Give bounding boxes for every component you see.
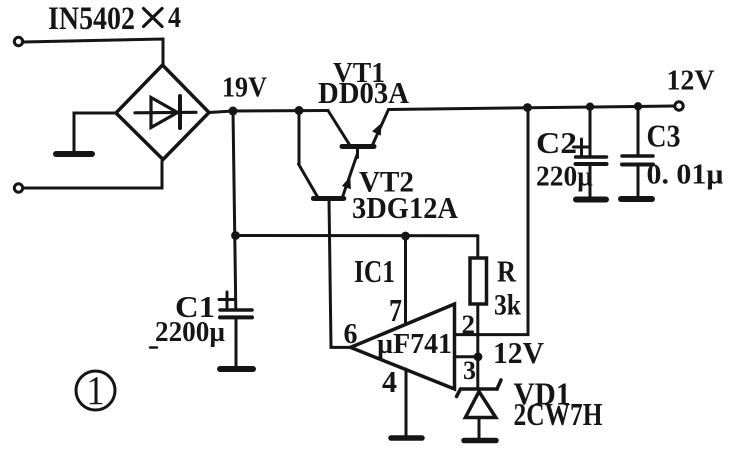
wire top input to bridge (23, 39, 163, 64)
wire bottom input to bridge (23, 161, 162, 188)
wire 19V rail left (209, 111, 328, 113)
svg-text:220µ: 220µ (536, 161, 593, 193)
svg-text:3: 3 (463, 356, 476, 385)
node junction rail-C1 (229, 107, 238, 116)
capacitor C2 plates (576, 157, 607, 164)
svg-text:µF741: µF741 (377, 329, 452, 360)
stray mark (150, 346, 157, 349)
zener VD1 anode triangle (465, 392, 495, 418)
transistor VT1 emitter (372, 110, 389, 147)
svg-text:12V: 12V (667, 66, 715, 97)
diode inside bridge (135, 96, 196, 128)
svg-text:7: 7 (389, 292, 402, 328)
ground under C1 (220, 366, 253, 372)
wire VT2 base down to op-amp output (329, 199, 351, 348)
node junction pin7 (401, 232, 410, 241)
svg-text:C2: C2 (536, 125, 577, 160)
transistor VT2 emitter (342, 155, 357, 199)
wire C3 to ground (637, 165, 640, 196)
ground under C2 (576, 197, 606, 203)
transistor VT1 collector (328, 111, 350, 146)
svg-text:2CW7H: 2CW7H (514, 396, 603, 432)
transistor VT2 base bar (313, 196, 343, 201)
svg-text:1: 1 (87, 367, 105, 413)
wire bridge left vertex to ground (74, 113, 116, 151)
transistor VT1 base stub (356, 147, 359, 158)
bridge rectifier diamond (116, 65, 209, 160)
svg-text:R: R (497, 254, 517, 289)
capacitor C1 plus sign (219, 292, 235, 308)
svg-text:0. 01µ: 0. 01µ (647, 160, 724, 191)
op-amp pin 2 wire to feedback (456, 108, 528, 335)
node junction rail-VT2 collector (295, 106, 304, 115)
svg-text:DD03A: DD03A (318, 75, 410, 110)
op-amp pin 4 wire (405, 369, 408, 436)
transistor VT2 collector (299, 164, 318, 197)
wire 19V rail right to output (389, 106, 675, 110)
node junction pin3-zener (474, 352, 483, 361)
wire VT2 collector drop (298, 111, 301, 165)
op-amp IC1 triangle (351, 304, 455, 389)
capacitor C2 plus sign (574, 139, 590, 155)
ground under C3 (621, 196, 652, 202)
node junction rail-feedback (523, 103, 532, 112)
zener VD1 cathode bar (457, 380, 502, 397)
wire rail junction down to C1 and bias line (233, 111, 236, 309)
capacitor C3 lead top (637, 106, 640, 156)
ground under zener (464, 438, 496, 444)
ground under pin 4 (391, 435, 422, 441)
capacitor C2 lead top (589, 107, 592, 157)
node junction rail-C3 (634, 102, 642, 110)
wire horizontal bias line (236, 234, 478, 237)
svg-text:3k: 3k (494, 289, 521, 322)
figure number circle 1 (76, 371, 115, 410)
input terminal top (14, 37, 22, 45)
svg-text:3DG12A: 3DG12A (352, 190, 459, 225)
op-amp pin 3 stub (456, 355, 478, 358)
output terminal 12V (675, 102, 683, 110)
svg-text:12V: 12V (493, 335, 545, 370)
ground at bridge (56, 151, 92, 157)
svg-text:IC1: IC1 (354, 253, 395, 289)
transistor VT1 emitter arrow (372, 123, 382, 136)
svg-text:2200µ: 2200µ (155, 316, 225, 348)
wire C2 to ground (589, 164, 592, 196)
svg-text:2: 2 (462, 310, 476, 340)
wire zener to ground (478, 418, 481, 439)
node junction bias line (231, 231, 240, 240)
capacitor C1 plates (220, 310, 252, 317)
svg-text:4: 4 (382, 364, 397, 399)
transistor VT1 base bar (342, 144, 374, 149)
svg-text:C3: C3 (647, 118, 681, 154)
node junction rail-C2 (586, 103, 594, 111)
resistor R body (470, 258, 487, 304)
transistor VT2 emitter arrow (342, 177, 351, 190)
svg-text:IN5402: IN5402 (48, 1, 135, 37)
capacitor C3 plates (622, 156, 653, 165)
op-amp pin 7 wire (404, 236, 407, 325)
resistor R lead bottom to zener (476, 304, 479, 389)
resistor R lead top (476, 236, 479, 258)
wire C1 to ground (235, 318, 238, 367)
svg-text:19V: 19V (222, 72, 267, 104)
input terminal bottom (14, 184, 22, 192)
svg-text:4: 4 (168, 1, 181, 34)
svg-text:6: 6 (344, 318, 358, 350)
